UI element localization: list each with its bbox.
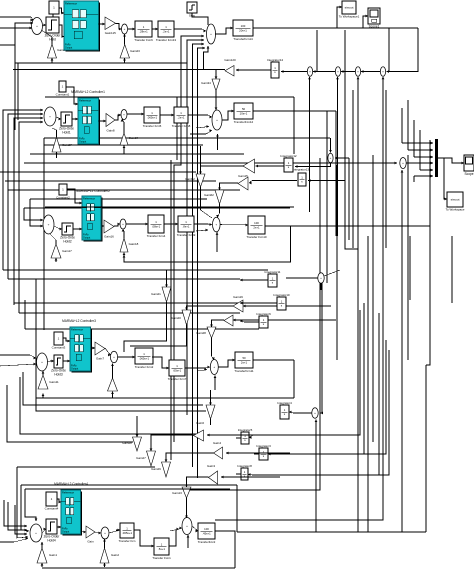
- svg-text:.2s+1: .2s+1: [163, 29, 170, 33]
- gain Gain120: [224, 58, 236, 76]
- constant block Constant4: [45, 492, 59, 511]
- svg-text:Integrator4: Integrator4: [277, 401, 292, 405]
- svg-text:Gain29: Gain29: [151, 467, 161, 471]
- integrator Integrator8: [237, 464, 252, 480]
- label MARMA+L2 Controller2: [76, 189, 110, 193]
- wire: [207, 434, 260, 437]
- svg-text:+: +: [314, 411, 316, 415]
- gain Gain7: [95, 342, 105, 361]
- wire: [8, 502, 27, 531]
- wire: [420, 169, 433, 172]
- wire: [336, 77, 339, 236]
- gain Gain6: [194, 421, 205, 441]
- wire: [293, 360, 295, 398]
- wire: [0, 17, 33, 21]
- transfer fcn TransferFcn14: [233, 20, 253, 41]
- wire: [128, 28, 135, 31]
- scope Scope: [464, 155, 474, 176]
- wire: [151, 435, 194, 444]
- wire: [438, 158, 464, 164]
- wire: [187, 535, 190, 548]
- svg-text:Hold2: Hold2: [63, 239, 72, 243]
- label MARMA+L2 Controller4: [54, 482, 88, 486]
- wire: [24, 208, 43, 221]
- gain Gain12: [108, 378, 118, 391]
- wire: [216, 232, 219, 252]
- svg-text:100: 100: [241, 24, 246, 28]
- transfer fcn Transfer Fcn10: [246, 216, 267, 239]
- wire: [209, 390, 212, 405]
- svg-text:Gain62: Gain62: [204, 193, 214, 197]
- svg-text:Transfer Fcn10: Transfer Fcn10: [246, 235, 267, 239]
- gain Gain15: [238, 177, 248, 190]
- gain Gain28: [122, 437, 141, 451]
- svg-text:Reference: Reference: [62, 490, 75, 494]
- wire: [406, 162, 433, 165]
- svg-text:MARMA+L2 Controller1: MARMA+L2 Controller1: [71, 90, 105, 94]
- wire: [308, 179, 345, 182]
- svg-text:Reference: Reference: [65, 1, 78, 5]
- wire: [286, 277, 318, 279]
- svg-text:Gain8: Gain8: [106, 129, 114, 133]
- wire: [188, 115, 212, 118]
- wire: [0, 22, 33, 45]
- transfer fcn Transfer Fcn5: [143, 107, 162, 128]
- wire: [388, 28, 390, 72]
- wire: [253, 110, 336, 112]
- wire: [25, 488, 230, 490]
- wire: [226, 452, 290, 455]
- wire: [130, 325, 187, 346]
- svg-text:Gain2: Gain2: [111, 553, 119, 557]
- wire: [24, 300, 26, 329]
- wire: [115, 114, 121, 120]
- svg-text:Hold3: Hold3: [54, 372, 63, 376]
- svg-text:Gain6: Gain6: [196, 421, 204, 425]
- sum S1: [32, 18, 43, 35]
- svg-text:Transfer Fcn4: Transfer Fcn4: [147, 234, 166, 238]
- to-workspace simout: [446, 192, 465, 212]
- wire: [367, 236, 369, 532]
- mux Mux: [435, 139, 438, 177]
- svg-text:+: +: [186, 524, 188, 528]
- wire: [3, 269, 268, 271]
- svg-text:Transfer Fcn: Transfer Fcn: [119, 539, 136, 543]
- sum S3b: [213, 217, 221, 232]
- svg-text:.28s+1: .28s+1: [139, 29, 148, 33]
- wire: [47, 360, 54, 363]
- svg-text:Scope: Scope: [464, 172, 473, 176]
- wire: [215, 531, 235, 568]
- wire: [17, 467, 28, 538]
- wire: [407, 155, 409, 360]
- gain Gain115: [105, 17, 116, 35]
- wire: [20, 377, 196, 434]
- svg-text:Gain115: Gain115: [105, 31, 116, 35]
- svg-text:Gain3: Gain3: [207, 464, 215, 468]
- svg-text:Gain120: Gain120: [224, 58, 236, 62]
- transfer fcn Transfer Fcn13: [156, 21, 177, 42]
- wire: [166, 453, 214, 455]
- svg-text:+: +: [210, 32, 212, 36]
- sum S4c: [312, 408, 318, 418]
- wire: [0, 171, 196, 173]
- gain Gain52: [185, 174, 205, 187]
- svg-text:To Workspace1: To Workspace1: [339, 15, 360, 19]
- gain Gain: [86, 526, 95, 544]
- wire: [233, 319, 336, 322]
- svg-text:Integrator13: Integrator13: [293, 168, 310, 172]
- wire: [165, 270, 168, 287]
- svg-text:+: +: [330, 156, 332, 160]
- wire: [8, 113, 43, 279]
- svg-text:+: +: [357, 70, 359, 74]
- wire: [187, 477, 209, 478]
- gain Gain11: [38, 375, 59, 389]
- svg-text:TransferFcn14: TransferFcn14: [233, 37, 253, 41]
- wire: [254, 453, 259, 455]
- wire: [385, 90, 387, 248]
- svg-text:Transfer Fcn6: Transfer Fcn6: [134, 38, 153, 42]
- wire: [413, 176, 415, 182]
- svg-text:Integrator8: Integrator8: [237, 464, 252, 468]
- svg-text:Constant2: Constant2: [56, 196, 70, 200]
- wire: [170, 160, 172, 460]
- sum S5: [30, 524, 42, 542]
- svg-text:+: +: [213, 365, 215, 369]
- wire: [42, 371, 45, 375]
- wire: [243, 305, 331, 308]
- svg-text:Constant3: Constant3: [52, 346, 66, 350]
- svg-text:Integrator6: Integrator6: [256, 312, 271, 316]
- svg-text:simout: simout: [345, 6, 354, 10]
- wire: [81, 531, 86, 534]
- step block Step: [187, 2, 197, 18]
- svg-text:.065s+1: .065s+1: [139, 356, 149, 360]
- gain Gain16: [104, 220, 114, 239]
- wire: [23, 372, 203, 405]
- constant block Constant3: [52, 332, 66, 350]
- wire: [42, 528, 46, 533]
- svg-text:+: +: [215, 223, 217, 227]
- wire: [5, 180, 216, 182]
- wire: [444, 158, 447, 200]
- svg-text:Gain: Gain: [87, 540, 94, 544]
- wire: [123, 58, 126, 63]
- sum S3c: [318, 273, 324, 283]
- wire: [36, 397, 294, 399]
- wire: [95, 532, 101, 535]
- integrator Integrator12: [280, 154, 297, 172]
- wire: [315, 420, 318, 533]
- wire: [152, 28, 158, 31]
- wire: [44, 144, 203, 146]
- svg-text:+: +: [124, 27, 126, 31]
- svg-text:Gain1: Gain1: [49, 553, 57, 557]
- svg-text:20s+1: 20s+1: [239, 28, 247, 32]
- svg-text:Output: Output: [83, 237, 91, 240]
- wire: [214, 376, 217, 391]
- svg-text:Output: Output: [62, 531, 70, 534]
- integrator Integrator14: [267, 58, 284, 78]
- transfer fcn Transfer Fcn9: [177, 216, 196, 237]
- svg-text:Transfer Fcn2: Transfer Fcn2: [135, 365, 154, 369]
- wire: [215, 91, 218, 110]
- transfer fcn Transfer Fcn6: [134, 21, 153, 42]
- transfer fcn TransferFcn12: [234, 103, 254, 124]
- svg-text:Gain15: Gain15: [238, 174, 248, 178]
- wire: [425, 365, 427, 532]
- svg-text:Gain34: Gain34: [201, 81, 211, 85]
- wire: [253, 359, 294, 361]
- wire: [187, 39, 204, 415]
- svg-text:+: +: [113, 355, 115, 359]
- svg-text:2s+1: 2s+1: [241, 360, 248, 364]
- wire: [164, 223, 178, 226]
- sum S1d: [335, 67, 340, 77]
- wire: [222, 110, 234, 120]
- wire: [378, 313, 380, 475]
- subsystem MARMA+L2 Controller1 (cyan): [78, 98, 100, 146]
- wire: [118, 356, 135, 359]
- wire: [41, 542, 44, 548]
- wire: [67, 189, 82, 204]
- wire: [216, 204, 219, 218]
- wire: [196, 125, 209, 128]
- svg-text:Reference: Reference: [79, 98, 92, 102]
- wire: [218, 359, 235, 367]
- wire: [50, 234, 56, 244]
- gain Gain1: [37, 548, 57, 563]
- gain Gain4: [213, 441, 223, 459]
- svg-text:.8s+1: .8s+1: [183, 224, 190, 228]
- wire: [160, 114, 174, 117]
- wire: [54, 226, 62, 230]
- wire: [72, 118, 78, 121]
- wire: [198, 368, 207, 371]
- wire: [236, 485, 238, 532]
- wire: [407, 100, 409, 150]
- svg-text:Transfer Fcn1: Transfer Fcn1: [152, 556, 171, 560]
- wire: [200, 146, 202, 166]
- wire: [52, 128, 57, 137]
- wire: [220, 224, 248, 227]
- wire: [57, 499, 61, 503]
- wire: [313, 70, 335, 73]
- svg-text:Integrator12: Integrator12: [280, 154, 297, 158]
- wire: [7, 385, 133, 442]
- wire: [122, 229, 125, 238]
- wire: [165, 455, 168, 462]
- wire: [194, 223, 212, 226]
- wire: [237, 531, 426, 533]
- wire: [56, 117, 61, 120]
- sum S1e: [355, 67, 360, 77]
- gain Gain29: [151, 462, 170, 477]
- wire: [293, 97, 295, 154]
- wire: [36, 279, 206, 411]
- wire: [4, 500, 27, 527]
- gain Gain22: [48, 44, 68, 58]
- svg-text:2s+1: 2s+1: [253, 225, 260, 229]
- wire: [210, 419, 212, 425]
- svg-text:+: +: [320, 276, 322, 280]
- wire: [240, 302, 277, 305]
- wire: [42, 567, 235, 569]
- zero-order hold Zero-Order Hold3: [51, 355, 66, 376]
- wire: [295, 163, 331, 168]
- svg-text:+: +: [337, 70, 339, 74]
- wire: [21, 485, 29, 532]
- wire: [124, 302, 167, 352]
- wire: [0, 27, 32, 30]
- wire: [41, 563, 44, 567]
- wire: [372, 155, 374, 442]
- svg-text:+: +: [41, 360, 43, 364]
- wire: [24, 207, 290, 209]
- svg-text:+: +: [35, 531, 37, 535]
- svg-text:+: +: [49, 115, 51, 119]
- wire: [42, 31, 52, 45]
- wire: [337, 6, 342, 28]
- subsystem MARMA+L2 Controller2 (cyan): [82, 196, 103, 242]
- svg-text:+: +: [309, 70, 311, 74]
- wire: [169, 527, 182, 546]
- wire: [352, 90, 354, 248]
- wire: [3, 109, 43, 270]
- wire: [357, 77, 360, 532]
- wire: [341, 70, 355, 73]
- svg-text:simout: simout: [451, 198, 460, 202]
- wire: [236, 473, 241, 475]
- integrator Integrator10: [273, 293, 290, 310]
- svg-text:Transfer Fcn9: Transfer Fcn9: [177, 233, 196, 237]
- wire: [240, 279, 268, 282]
- wire: [105, 348, 111, 356]
- wire: [170, 528, 179, 531]
- wire: [185, 366, 210, 369]
- svg-text:Output: Output: [79, 141, 87, 144]
- wire: [324, 270, 340, 276]
- gain Gain28b: [196, 327, 216, 338]
- wire: [248, 350, 389, 476]
- wire: [329, 138, 332, 153]
- sum S2: [44, 107, 56, 126]
- wire: [15, 505, 27, 535]
- wire: [13, 69, 225, 71]
- wire: [121, 119, 124, 133]
- wire: [0, 363, 36, 366]
- wire: [19, 121, 43, 313]
- wire: [210, 320, 224, 327]
- svg-text:Gain19: Gain19: [233, 295, 243, 299]
- wire: [289, 411, 312, 414]
- sum S1c: [307, 67, 312, 77]
- gain Gain27: [52, 137, 72, 152]
- wire: [308, 77, 311, 212]
- svg-text:Gain52: Gain52: [185, 177, 195, 181]
- svg-text:Transfer Fcn7: Transfer Fcn7: [168, 377, 187, 381]
- wire: [123, 34, 126, 45]
- wire: [192, 13, 208, 25]
- svg-text:Integrator5: Integrator5: [238, 428, 253, 432]
- constant block Constant2: [56, 184, 70, 200]
- subsystem MARMA+L2 Controller3 (cyan): [70, 327, 92, 373]
- wire: [30, 153, 244, 155]
- label MARMA+L2 Controller1: [71, 90, 105, 94]
- integrator Integrator6: [256, 312, 271, 328]
- svg-text:.065s+1: .065s+1: [122, 531, 132, 535]
- svg-text:+: +: [36, 24, 38, 28]
- sum S4b: [210, 360, 218, 375]
- sum S2d: [400, 158, 406, 169]
- to-workspace simout1: [339, 1, 360, 19]
- wire: [30, 199, 43, 227]
- wire: [185, 478, 188, 487]
- wire: [127, 113, 144, 116]
- wire: [218, 183, 238, 190]
- gain Gain62: [204, 190, 224, 204]
- transfer fcn TransferFcn2: [198, 523, 216, 544]
- wire: [192, 526, 198, 532]
- sum S2b: [212, 110, 222, 130]
- svg-text:Reference: Reference: [83, 196, 96, 200]
- transfer fcn Transfer Fcn8: [172, 107, 191, 128]
- svg-text:Integrator3: Integrator3: [256, 444, 271, 448]
- wire: [348, 158, 350, 240]
- svg-text:+: +: [122, 222, 124, 226]
- subsystem MARMA+L2 Controller (cyan): [64, 1, 100, 52]
- wire: [345, 30, 358, 249]
- wire: [268, 340, 386, 455]
- wire: [136, 428, 139, 437]
- wire: [30, 198, 207, 200]
- svg-text:Gain7: Gain7: [96, 357, 104, 361]
- gain Gain21: [151, 287, 171, 302]
- wire: [103, 539, 106, 548]
- wire: [409, 236, 411, 300]
- svg-text:Transfer Fcn8: Transfer Fcn8: [172, 124, 191, 128]
- wire: [387, 28, 419, 73]
- wire: [136, 416, 138, 428]
- wire: [66, 87, 78, 105]
- wire: [14, 45, 16, 130]
- svg-text:Gain11: Gain11: [49, 380, 59, 384]
- sum S1f: [380, 67, 385, 77]
- integrator Integrator11: [265, 270, 281, 287]
- sum S5a: [101, 527, 109, 539]
- svg-text:.5s+1: .5s+1: [158, 547, 165, 551]
- gain Gain18b: [224, 315, 233, 326]
- wire: [102, 225, 105, 228]
- wire: [123, 146, 126, 155]
- wire: [103, 563, 106, 567]
- svg-text:.2s+1: .2s+1: [178, 115, 185, 119]
- wire: [17, 466, 155, 468]
- wire: [401, 108, 403, 143]
- svg-text:Integrator10: Integrator10: [273, 293, 290, 297]
- wire: [59, 8, 64, 14]
- wire: [8, 278, 240, 280]
- wire: [320, 283, 322, 290]
- wire: [14, 117, 43, 305]
- svg-text:Reference: Reference: [71, 327, 84, 331]
- wire: [316, 30, 318, 72]
- wire: [116, 24, 122, 31]
- gain Gain5b: [206, 405, 215, 419]
- wire: [99, 23, 106, 26]
- wire: [265, 225, 430, 227]
